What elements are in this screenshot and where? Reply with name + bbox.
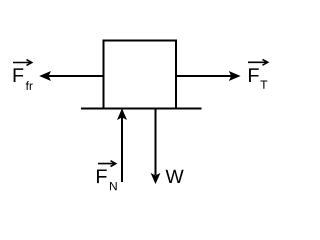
label W bbox=[166, 170, 184, 183]
force arrow F_fr (left) bbox=[39, 71, 103, 81]
label F_N bbox=[97, 169, 117, 190]
vector hat over F_fr bbox=[13, 60, 32, 66]
force arrow W (down) bbox=[151, 109, 161, 184]
vector hat over F_N bbox=[98, 161, 116, 167]
force arrow F_T (right) bbox=[176, 71, 241, 81]
label F_fr bbox=[14, 68, 33, 90]
surface line bbox=[81, 108, 202, 110]
box (object) bbox=[104, 41, 177, 109]
vector hat over F_T bbox=[248, 59, 268, 65]
label F_T bbox=[249, 68, 267, 88]
force arrow F_N (up) bbox=[117, 108, 127, 182]
